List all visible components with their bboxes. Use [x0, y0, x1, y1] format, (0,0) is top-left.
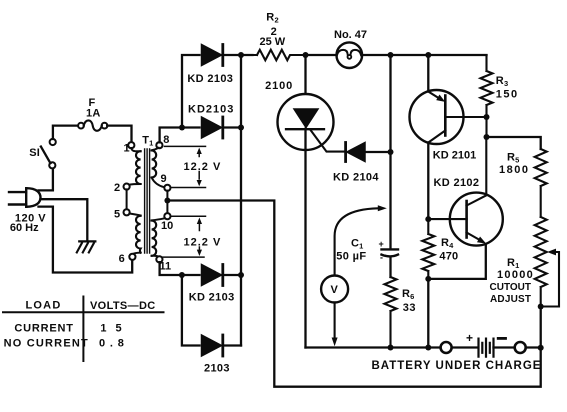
- svg-text:CUTOUT: CUTOUT: [490, 282, 531, 293]
- svg-text:2100: 2100: [265, 80, 293, 92]
- node KD2104 branch: [388, 52, 394, 58]
- svg-text:NO CURRENT: NO CURRENT: [4, 338, 89, 350]
- diode KD 2104: [346, 143, 391, 162]
- table load/volts: [3, 297, 164, 362]
- wire battery rail: [306, 346, 441, 348]
- fuse F 1A: [78, 120, 107, 130]
- svg-text:60 Hz: 60 Hz: [10, 222, 39, 234]
- dimension line pin 9: [172, 187, 206, 189]
- dimension arrows 12.2 V lower: [197, 218, 202, 257]
- transformer core: [145, 149, 150, 253]
- node KD2101 base / R3: [484, 114, 490, 120]
- node R1 bottom: [538, 304, 544, 310]
- wire clip to battery: [452, 346, 478, 348]
- wire switch to fuse: [53, 126, 78, 139]
- transistor KD 2101: [410, 55, 487, 219]
- svg-text:KD 2101: KD 2101: [433, 150, 476, 162]
- svg-text:8: 8: [163, 134, 169, 146]
- resistor R3: [481, 55, 493, 137]
- svg-text:33: 33: [403, 302, 416, 314]
- svg-text:10000: 10000: [497, 269, 534, 281]
- svg-text:5: 5: [114, 209, 120, 221]
- meter V: [321, 205, 387, 346]
- dimension line pin 10: [172, 215, 206, 217]
- svg-text:C1: C1: [351, 238, 363, 251]
- svg-text:+: +: [379, 239, 384, 249]
- battery minus mark: [498, 337, 505, 340]
- svg-text:12.2 V: 12.2 V: [184, 237, 222, 249]
- svg-text:CURRENT: CURRENT: [14, 323, 73, 335]
- wire top rail right: [391, 54, 487, 56]
- svg-text:50 µF: 50 µF: [336, 251, 366, 263]
- svg-text:KD 2103: KD 2103: [189, 292, 235, 304]
- pin labels 8 9 10 11: [160, 134, 174, 273]
- wire plug bottom lead to pin 6: [39, 207, 133, 273]
- svg-text:T1: T1: [142, 135, 153, 148]
- wire R5 branch: [487, 137, 541, 149]
- node R6 bottom: [388, 345, 394, 351]
- wire pin 11 drop to diode row 3: [160, 262, 200, 275]
- svg-text:6: 6: [119, 253, 125, 265]
- node bus diode3: [238, 272, 244, 278]
- svg-text:-: -: [380, 253, 383, 263]
- svg-text:KD 2104: KD 2104: [333, 172, 379, 184]
- transformer primary winding upper, pins 1-2: [124, 142, 141, 190]
- svg-text:R3: R3: [496, 75, 508, 88]
- transformer secondary winding upper, pins 8-9: [152, 142, 171, 191]
- transformer secondary winding lower, pins 10-11: [152, 213, 171, 262]
- svg-text:1A: 1A: [86, 108, 100, 120]
- label 12.2 V lower: [184, 237, 222, 249]
- capacitor C1: [382, 249, 399, 277]
- pin labels 1 2 5 6: [114, 143, 130, 266]
- svg-text:+: +: [466, 331, 473, 345]
- diode D3 KD 2103: [202, 265, 242, 286]
- svg-text:1800: 1800: [499, 164, 529, 176]
- wire plug middle lead to ground: [41, 199, 88, 240]
- svg-text:11: 11: [160, 261, 172, 273]
- svg-text:BATTERY UNDER CHARGE: BATTERY UNDER CHARGE: [372, 360, 542, 372]
- wire fuse to pin 1: [107, 126, 131, 143]
- svg-text:KD 2103: KD 2103: [187, 73, 233, 85]
- node KD2101 emitter branch: [425, 52, 431, 58]
- dimension line pin 8: [165, 145, 206, 147]
- node center tap: [164, 198, 170, 204]
- wire to lamp: [306, 54, 337, 56]
- wire diode1 anode riser: [182, 55, 200, 128]
- node KD2104 anode: [388, 149, 394, 155]
- transformer T1 label: [142, 135, 153, 148]
- svg-text:SI: SI: [29, 147, 40, 159]
- node pin11/diode junction: [179, 272, 185, 278]
- svg-text:No. 47: No. 47: [334, 29, 367, 41]
- node R4 bottom / emitter: [425, 276, 431, 282]
- rheostat R1: [535, 217, 547, 307]
- lamp No. 47: [337, 42, 363, 68]
- node bus diode2: [238, 125, 244, 131]
- wire R1 bottom to battery rail: [540, 307, 542, 348]
- diode D2 KD2103: [202, 117, 242, 138]
- diode D1 KD 2103: [202, 45, 253, 66]
- svg-text:150: 150: [496, 89, 519, 101]
- terminal clip right: [515, 342, 526, 353]
- svg-text:9: 9: [161, 173, 167, 185]
- svg-text:1: 1: [100, 323, 107, 335]
- wire clip to node: [526, 346, 541, 348]
- wire diode4 anode drop: [182, 275, 200, 346]
- svg-text:R4: R4: [441, 237, 454, 250]
- svg-text:470: 470: [439, 250, 458, 262]
- svg-text:25 W: 25 W: [260, 36, 286, 48]
- transistor KD 2102: [428, 137, 503, 279]
- SCR 2100: [278, 55, 345, 348]
- wire battery to clip right: [494, 346, 515, 348]
- resistor R4: [422, 219, 434, 279]
- ground: [77, 241, 96, 252]
- svg-text:2103: 2103: [204, 363, 230, 375]
- svg-text:2: 2: [114, 182, 120, 194]
- svg-text:0.8: 0.8: [99, 338, 129, 350]
- wire plug top lead to switch: [39, 168, 53, 190]
- wire center tap to bottom return: [167, 201, 540, 387]
- wire R4 bottom to battery rail: [427, 279, 429, 348]
- wire pin 8 riser to diode row 2: [160, 128, 200, 143]
- node R4 rail: [425, 345, 431, 351]
- node battery right: [538, 345, 544, 351]
- svg-text:R5: R5: [507, 152, 519, 165]
- label 12.2 V upper: [184, 161, 222, 173]
- svg-text:LOAD: LOAD: [26, 300, 62, 312]
- wire branch down to C1: [389, 55, 391, 249]
- transformer primary winding lower, pins 5-6: [124, 209, 141, 260]
- svg-text:5: 5: [116, 323, 123, 335]
- rheostat wiper arrow: [541, 249, 559, 307]
- diode D4 2103: [202, 335, 242, 356]
- dimension line pin 11: [163, 256, 205, 258]
- wire pins 2-5 jumper: [126, 189, 128, 209]
- wire rectifier bus vertical: [240, 55, 242, 346]
- label 120 V 60 Hz: [10, 212, 46, 234]
- node R5 branch: [484, 134, 490, 140]
- ac plug: [9, 188, 41, 207]
- resistor R2: [241, 50, 306, 60]
- svg-text:R2: R2: [266, 12, 278, 25]
- svg-text:1: 1: [124, 143, 130, 155]
- resistor R6: [385, 277, 397, 348]
- node bus top: [238, 52, 244, 58]
- wire center tap pins 9-10: [166, 191, 168, 214]
- svg-text:V: V: [331, 284, 339, 296]
- wire lamp to node: [362, 54, 390, 56]
- switch S1: [41, 139, 56, 169]
- node SCR anode branch: [303, 52, 309, 58]
- svg-text:KD 2102: KD 2102: [434, 177, 480, 189]
- svg-text:10: 10: [161, 220, 173, 232]
- node KD2102 base / R4: [425, 216, 431, 222]
- svg-text:R6: R6: [402, 288, 414, 301]
- svg-text:ADJUST: ADJUST: [490, 294, 531, 305]
- label battery under charge: [372, 360, 542, 372]
- node pin8/diode junction: [179, 125, 185, 131]
- svg-text:KD2103: KD2103: [188, 104, 234, 116]
- dimension arrows 12.2 V upper: [197, 148, 202, 187]
- terminal clip left: [441, 342, 452, 353]
- battery: [479, 339, 494, 357]
- svg-text:VOLTS—DC: VOLTS—DC: [90, 300, 156, 312]
- svg-text:12.2 V: 12.2 V: [184, 161, 222, 173]
- resistor R5: [535, 149, 547, 217]
